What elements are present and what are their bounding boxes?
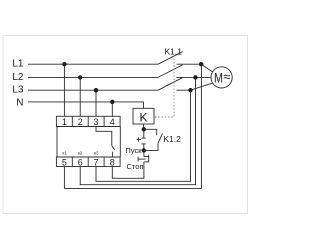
svg-text:7: 7 — [93, 157, 98, 167]
wire K1.1 output phase L3 — [177, 89, 191, 91]
relay coil K box — [133, 108, 154, 124]
wire start button upper — [143, 129, 145, 138]
svg-text:N: N — [16, 98, 23, 109]
wire drop N to terminal 4 — [111, 102, 113, 116]
svg-text:4: 4 — [110, 117, 115, 127]
junction dot motor phase L3 — [188, 88, 192, 92]
wire terminal 8 to stop button — [112, 162, 144, 178]
terminal 8 label — [110, 157, 115, 167]
stop button Stop contact NC — [138, 155, 149, 163]
start button Pusk label — [125, 146, 142, 155]
terminal 3 label — [93, 117, 98, 127]
svg-text:L1: L1 — [12, 59, 24, 70]
wire motor L3 drop right side — [96, 90, 191, 181]
contact K1.2 blade — [158, 133, 163, 143]
wire K1.2 branch bottom — [144, 143, 158, 150]
terminal 2 label — [78, 117, 83, 127]
junction dot motor phase L2 — [193, 75, 197, 79]
svg-text:≈: ≈ — [223, 69, 230, 84]
contactor K1.1 blade phase L2 — [158, 65, 183, 78]
label k2 internal — [78, 151, 83, 156]
svg-text:3: 3 — [93, 117, 98, 127]
svg-text:1: 1 — [62, 117, 67, 127]
label k1 internal — [63, 151, 68, 156]
node L2 label — [12, 72, 24, 83]
junction dot L3 tap — [94, 88, 98, 92]
terminal 6 label — [78, 157, 83, 167]
wire internal contact to terminal 8 — [111, 152, 113, 157]
wire coil K bottom — [143, 124, 145, 129]
wire drop L1 to terminal 1 — [63, 64, 65, 116]
junction dot below coil K — [142, 127, 146, 131]
wire K1.1 output phase L2 — [177, 76, 211, 78]
svg-text:L2: L2 — [12, 72, 24, 83]
stop button Stop label — [127, 162, 144, 171]
frame border — [3, 36, 248, 214]
wire motor L1 drop right side — [64, 64, 201, 188]
svg-text:M: M — [214, 69, 223, 85]
svg-text:K1.2: K1.2 — [163, 134, 181, 144]
contactor K1.1 label — [165, 47, 183, 57]
contactor K1.1 blade phase L1 — [158, 52, 183, 64]
wire motor L2 drop right side — [80, 77, 195, 184]
svg-text:K: K — [139, 110, 147, 124]
node L3 label — [12, 85, 24, 96]
svg-text:Стоп: Стоп — [127, 162, 144, 171]
svg-text:к1: к1 — [63, 151, 68, 156]
relay device outline body — [57, 127, 120, 158]
svg-text:K1.1: K1.1 — [165, 47, 183, 57]
wire L2 horizontal — [28, 76, 158, 78]
wire L3 horizontal — [28, 89, 158, 91]
terminal 1 label — [62, 117, 67, 127]
svg-text:Пуск: Пуск — [125, 146, 142, 155]
wire to motor upper — [201, 64, 212, 71]
wire K1.2 branch top — [144, 129, 157, 135]
junction dot L1 tap — [62, 62, 66, 66]
wire stop button upper — [143, 150, 145, 156]
wire L1 horizontal — [28, 63, 158, 65]
svg-text:5: 5 — [62, 157, 67, 167]
node L1 label — [12, 59, 24, 70]
junction dot motor phase L1 — [199, 62, 203, 66]
contact K1.2 label — [163, 134, 181, 144]
start button Pusk contact NO — [137, 137, 146, 144]
wire start button lower — [143, 144, 145, 151]
wire to motor lower — [191, 83, 213, 90]
wire K1.1 output phase L1 — [177, 63, 202, 65]
contactor K1.1 mechanical link dashed — [154, 56, 174, 118]
wire drop L2 to terminal 2 — [79, 77, 81, 116]
label k3 internal — [94, 151, 99, 156]
svg-text:к3: к3 — [94, 151, 99, 156]
svg-text:L3: L3 — [12, 85, 24, 96]
terminal 4 label — [110, 117, 115, 127]
wire N horizontal — [28, 101, 144, 103]
terminal row bottom 5-8 — [56, 157, 120, 167]
junction dot L2 tap — [78, 75, 82, 79]
svg-text:8: 8 — [110, 157, 115, 167]
terminal row top 1-4 — [56, 116, 120, 126]
junction dot N tap — [110, 100, 114, 104]
terminal 5 label — [62, 157, 67, 167]
node N label — [16, 98, 23, 109]
motor M circle — [211, 67, 232, 88]
svg-text:2: 2 — [78, 117, 83, 127]
wire internal from terminal 3 — [96, 127, 112, 146]
junction dot start button bottom — [142, 148, 146, 152]
terminal 7 label — [93, 157, 98, 167]
svg-text:6: 6 — [78, 157, 83, 167]
svg-text:к2: к2 — [78, 151, 83, 156]
internal relay contact blade — [112, 146, 115, 150]
contactor K1.1 blade phase L3 — [158, 78, 183, 91]
wire drop L3 to terminal 3 — [95, 90, 97, 116]
wire N drop to coil K — [143, 102, 145, 108]
